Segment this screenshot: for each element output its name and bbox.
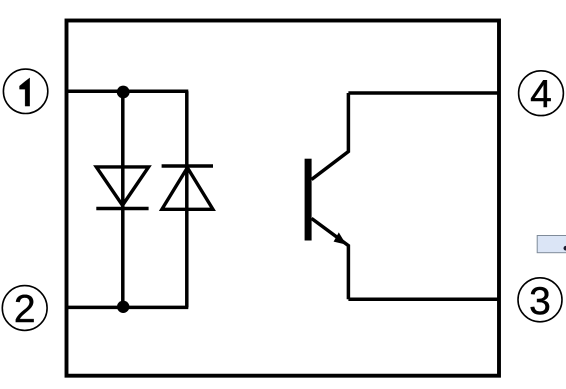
- selection artifact rectangle: [537, 236, 566, 253]
- pin 4 circle: [519, 71, 564, 116]
- transistor Q1 emitter arrowhead: [334, 232, 347, 244]
- svg-text:4: 4: [530, 73, 552, 116]
- junction node top: [117, 86, 130, 99]
- wire right branch vertical: [185, 91, 189, 307]
- wire pin3 horizontal: [348, 297, 498, 301]
- diode D2 (reverse, cathode up): [162, 166, 213, 209]
- transistor Q1 collector lead: [312, 93, 349, 180]
- pin 1 circle: [3, 69, 47, 113]
- wire pin1 horizontal: [67, 90, 189, 94]
- package outline box: [67, 21, 500, 376]
- pin 3 circle: [518, 278, 562, 323]
- pin 2 circle: [2, 286, 47, 331]
- svg-text:3: 3: [529, 280, 551, 323]
- wire left branch vertical: [121, 91, 125, 307]
- wire pin4 horizontal: [348, 91, 498, 95]
- transistor Q1 emitter lead: [312, 218, 349, 299]
- selection artifact dot: [564, 246, 566, 251]
- svg-text:2: 2: [14, 288, 36, 331]
- junction node bottom: [117, 301, 129, 313]
- wire pin2 horizontal: [67, 306, 189, 310]
- transistor Q1 base bar: [305, 159, 312, 241]
- diode D1 (LED, cathode down): [96, 167, 148, 209]
